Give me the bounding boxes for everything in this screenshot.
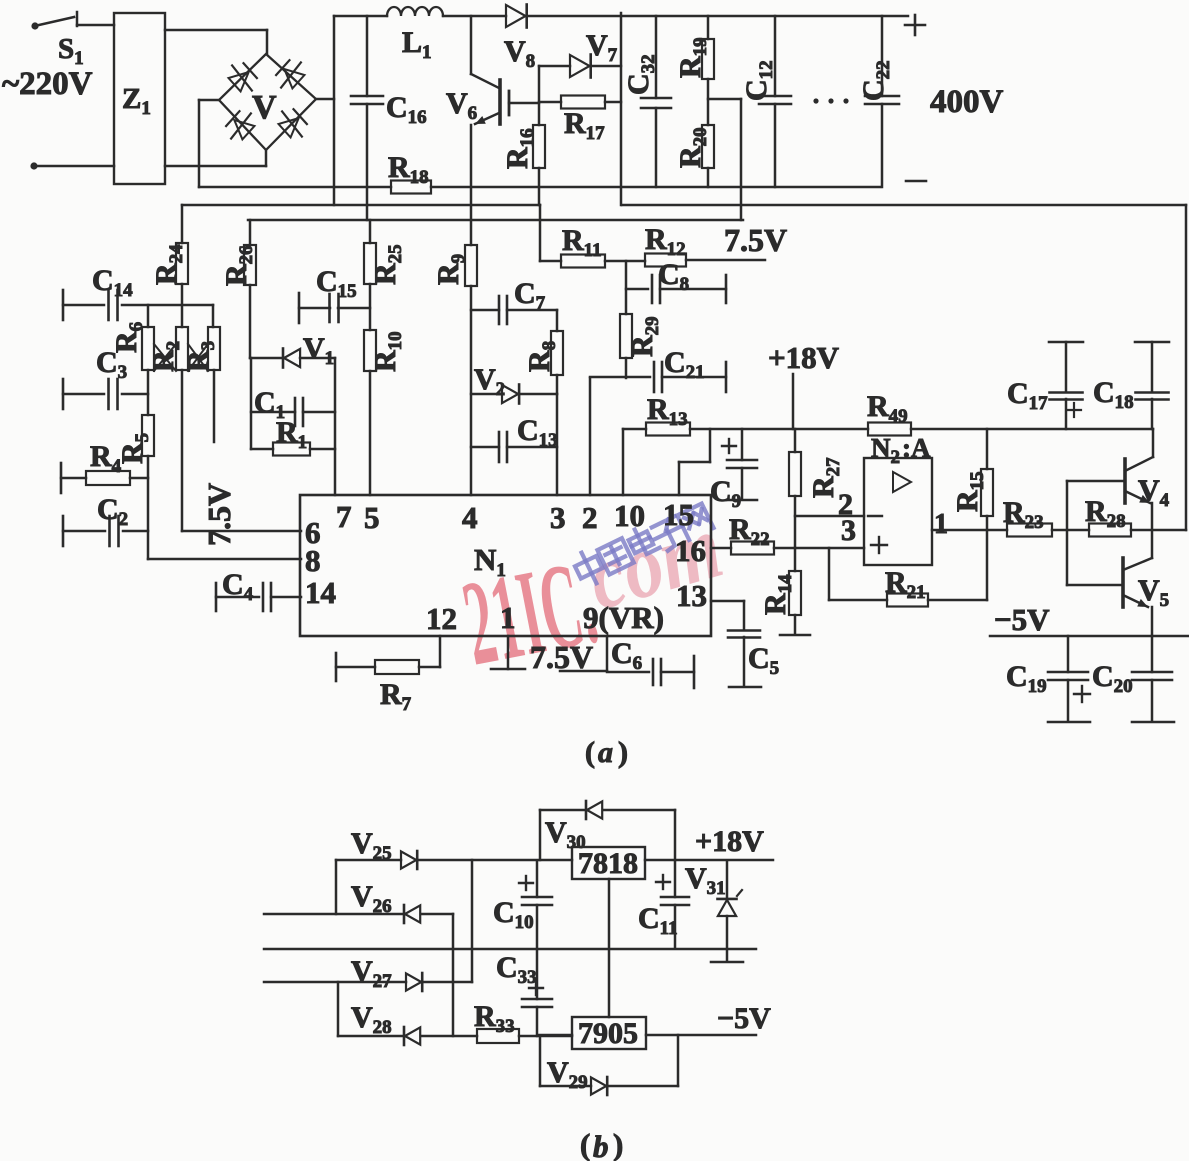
svg-text:3: 3 bbox=[841, 514, 856, 547]
svg-text:~220V: ~220V bbox=[2, 66, 93, 102]
svg-text::A: :A bbox=[902, 433, 931, 463]
svg-text:15: 15 bbox=[663, 497, 694, 532]
svg-text:V: V bbox=[252, 89, 277, 126]
svg-text:7.5V: 7.5V bbox=[201, 483, 237, 546]
svg-text:13: 13 bbox=[676, 578, 707, 613]
svg-text:7: 7 bbox=[336, 499, 352, 534]
svg-text:(: ( bbox=[580, 1127, 590, 1161]
svg-text:7.5V: 7.5V bbox=[530, 639, 593, 675]
svg-text:): ) bbox=[613, 1127, 623, 1161]
svg-text:4: 4 bbox=[462, 500, 478, 535]
svg-text:3: 3 bbox=[550, 500, 566, 535]
svg-text:): ) bbox=[618, 736, 628, 769]
svg-text:5: 5 bbox=[364, 500, 380, 535]
svg-text:16: 16 bbox=[675, 533, 706, 568]
svg-text:14: 14 bbox=[305, 575, 336, 610]
svg-text:8: 8 bbox=[305, 543, 321, 578]
svg-text:−5V: −5V bbox=[994, 602, 1050, 637]
svg-text:−5V: −5V bbox=[717, 1002, 771, 1035]
svg-text:+18V: +18V bbox=[768, 340, 840, 375]
svg-text:10: 10 bbox=[614, 498, 645, 533]
svg-text:a: a bbox=[598, 736, 613, 769]
svg-text:400V: 400V bbox=[930, 84, 1004, 120]
svg-text:7818: 7818 bbox=[578, 847, 638, 880]
svg-text:+18V: +18V bbox=[695, 825, 764, 858]
svg-text:7905: 7905 bbox=[578, 1017, 638, 1050]
svg-text:1: 1 bbox=[934, 509, 948, 540]
svg-text:7.5V: 7.5V bbox=[724, 222, 787, 258]
svg-text:b: b bbox=[593, 1129, 609, 1161]
svg-text:(: ( bbox=[585, 736, 595, 769]
svg-text:12: 12 bbox=[426, 601, 457, 636]
svg-text:9(VR): 9(VR) bbox=[583, 600, 664, 635]
svg-text:2: 2 bbox=[582, 500, 598, 535]
svg-text:1: 1 bbox=[500, 600, 516, 635]
